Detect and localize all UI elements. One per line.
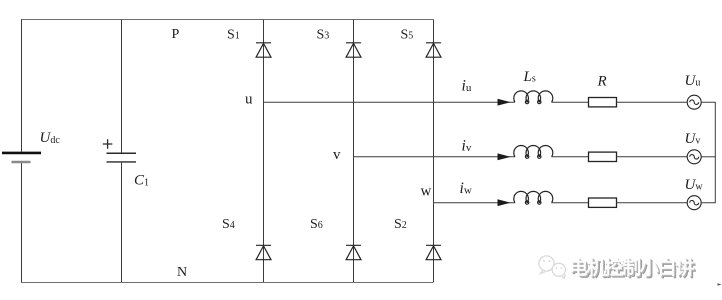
label P	[172, 27, 180, 42]
svg-text:N: N	[177, 265, 187, 280]
svg-text:Ls: Ls	[523, 69, 536, 85]
svg-text:iw: iw	[460, 180, 472, 197]
svg-text:S4: S4	[222, 217, 235, 232]
svg-text:iv: iv	[462, 138, 472, 155]
wire phase leg 3	[433, 20, 435, 283]
wire w resistor to source	[617, 202, 688, 204]
wire v inductor to resistor	[551, 156, 588, 158]
label S6	[310, 217, 323, 232]
label U_dc	[40, 130, 61, 146]
svg-text:S2: S2	[394, 217, 407, 232]
svg-text:S5: S5	[401, 28, 414, 43]
svg-text:Udc: Udc	[40, 130, 61, 146]
svg-text:w: w	[421, 184, 432, 200]
label R	[597, 74, 607, 90]
wire u inductor to resistor	[551, 101, 588, 103]
diode S3	[346, 43, 361, 57]
svg-text:S1: S1	[227, 28, 240, 43]
label U_u	[685, 73, 701, 89]
wire phase w output	[434, 202, 516, 204]
svg-text:P: P	[172, 27, 180, 42]
svg-text:R: R	[597, 74, 607, 90]
wire N rail (bottom DC bus)	[21, 282, 434, 284]
svg-text:v: v	[333, 147, 341, 163]
battery U_dc	[2, 153, 41, 162]
svg-text:Uv: Uv	[685, 131, 701, 147]
AC source U_u	[687, 95, 701, 109]
label S4	[222, 217, 235, 232]
AC source U_w	[687, 196, 701, 210]
wire neutral bus right	[701, 102, 715, 203]
label i_w	[460, 180, 472, 197]
label S1	[227, 28, 240, 43]
label U_v	[685, 131, 701, 147]
label N	[177, 265, 187, 280]
wire phase leg 1	[263, 20, 265, 283]
diode S4	[256, 245, 271, 259]
svg-text:Uu: Uu	[685, 73, 701, 89]
diode S1	[256, 43, 271, 57]
current arrow i_v	[498, 153, 511, 160]
node w	[421, 184, 432, 200]
wire v source to bus	[701, 156, 715, 158]
svg-text:Uw: Uw	[685, 177, 704, 193]
resistor R phase w	[589, 198, 617, 207]
svg-text:C1: C1	[134, 173, 149, 189]
inductor Ls phase w	[514, 191, 553, 204]
current arrow i_u	[498, 99, 511, 106]
diode S6	[346, 245, 361, 259]
logo wechat bubbles	[539, 256, 566, 279]
node u	[245, 92, 253, 108]
current arrow i_w	[498, 199, 511, 206]
label i_v	[462, 138, 472, 155]
wire phase u output	[264, 101, 516, 103]
wire v resistor to source	[617, 156, 688, 158]
wire capacitor branch	[121, 20, 123, 283]
inductor Ls phase u	[514, 91, 553, 104]
resistor R phase u	[589, 98, 617, 107]
node v	[333, 147, 341, 163]
svg-text:u: u	[245, 92, 253, 108]
wire phase v output	[354, 156, 516, 158]
inductor Ls phase v	[514, 145, 553, 158]
diode S2	[426, 245, 441, 259]
AC source U_v	[687, 150, 701, 164]
resistor R phase v	[589, 152, 617, 161]
capacitor C1	[103, 139, 136, 162]
label i_u	[462, 78, 472, 95]
svg-text:iu: iu	[462, 78, 472, 95]
label S2	[394, 217, 407, 232]
wire battery branch	[21, 20, 23, 283]
wire phase leg 2	[353, 20, 355, 283]
label L_s	[523, 69, 536, 85]
label U_w	[685, 177, 704, 193]
label S5	[401, 28, 414, 43]
diode S5	[426, 43, 441, 57]
cursor mark	[718, 283, 722, 286]
svg-text:S6: S6	[310, 217, 323, 232]
wire w inductor to resistor	[551, 202, 588, 204]
wire P rail (top DC bus)	[21, 19, 434, 21]
label S3	[317, 28, 330, 43]
wire u resistor to source	[617, 101, 688, 103]
svg-text:S3: S3	[317, 28, 330, 43]
watermark 电机控制小白讲	[569, 253, 693, 280]
label C1	[134, 173, 149, 189]
